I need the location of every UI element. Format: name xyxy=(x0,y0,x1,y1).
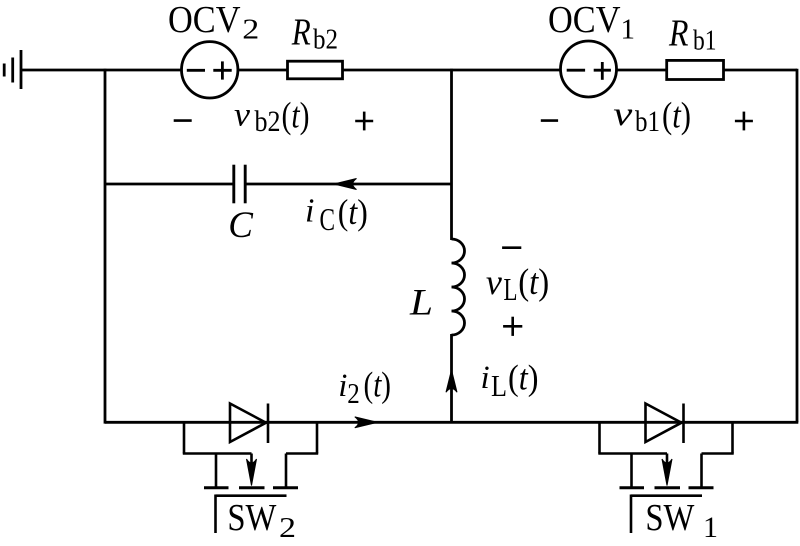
wire Rb1 to right edge xyxy=(724,69,798,72)
arrow i2 (points right) xyxy=(355,417,378,428)
svg-text:(t): (t) xyxy=(518,261,549,302)
svg-text:1: 1 xyxy=(621,14,636,46)
arrow SW2 gate (points down) xyxy=(247,459,257,486)
arrow iL (points up) xyxy=(446,370,457,392)
arrow SW1 gate (points down) xyxy=(662,459,672,486)
svg-text:2: 2 xyxy=(347,378,360,410)
svg-text:b2: b2 xyxy=(313,24,338,56)
diode D2 xyxy=(230,404,266,443)
svg-text:i: i xyxy=(481,360,490,396)
svg-text:(t): (t) xyxy=(364,365,392,405)
svg-text:R: R xyxy=(668,12,688,54)
svg-text:v: v xyxy=(613,96,633,133)
wire left vertical xyxy=(104,69,107,424)
resistor Rb1 xyxy=(667,60,724,79)
svg-text:b2: b2 xyxy=(255,105,281,138)
svg-text:v: v xyxy=(234,97,251,134)
wire top left from ground to OCV2 xyxy=(21,69,182,72)
label minus vL xyxy=(502,246,521,249)
svg-text:OCV: OCV xyxy=(548,0,621,41)
voltage source OCV1 xyxy=(561,41,617,97)
svg-text:L: L xyxy=(409,282,433,323)
svg-text:1: 1 xyxy=(703,511,718,544)
label minus vb2 xyxy=(174,119,192,122)
wire capacitor branch left xyxy=(105,183,234,186)
svg-text:C: C xyxy=(320,201,336,237)
ground xyxy=(4,50,21,89)
svg-text:R: R xyxy=(291,11,311,53)
wire capacitor branch right xyxy=(246,183,452,186)
mosfet SW1 body xyxy=(598,422,601,453)
wire bottom xyxy=(105,421,798,424)
label plus vb2 xyxy=(355,112,373,131)
wire middle vertical bottom xyxy=(450,334,453,422)
arrow iC (points left) xyxy=(334,179,357,190)
label minus vb1 xyxy=(541,119,558,122)
label plus vb1 xyxy=(735,112,753,131)
switch SW1 xyxy=(598,404,733,534)
resistor Rb2 xyxy=(288,61,343,79)
wire right vertical xyxy=(796,69,799,423)
voltage source OCV2 xyxy=(182,42,238,98)
inductor L xyxy=(452,239,465,335)
svg-text:(t): (t) xyxy=(282,96,310,137)
svg-text:OCV: OCV xyxy=(168,0,241,41)
svg-text:L: L xyxy=(504,272,518,307)
mosfet SW2 body xyxy=(183,422,186,453)
switch SW2 xyxy=(183,404,318,534)
svg-text:SW: SW xyxy=(645,497,694,539)
svg-text:L: L xyxy=(491,368,507,403)
svg-text:b1: b1 xyxy=(693,25,717,57)
wire middle vertical top xyxy=(450,69,453,240)
svg-text:2: 2 xyxy=(279,512,296,544)
svg-text:b1: b1 xyxy=(635,105,660,138)
svg-text:i: i xyxy=(305,193,314,230)
svg-text:(t): (t) xyxy=(338,192,368,232)
label plus vL xyxy=(503,317,522,336)
svg-text:SW: SW xyxy=(227,497,276,539)
svg-text:(t): (t) xyxy=(508,358,539,398)
wire OCV2 to Rb2 xyxy=(238,69,288,72)
diode D1 xyxy=(646,404,682,443)
svg-text:v: v xyxy=(486,262,502,302)
capacitor C xyxy=(234,165,245,204)
svg-text:C: C xyxy=(228,205,254,246)
svg-text:(t): (t) xyxy=(662,96,691,137)
wire OCV1 to Rb1 xyxy=(616,69,666,72)
svg-text:i: i xyxy=(338,368,347,404)
svg-text:2: 2 xyxy=(242,14,259,46)
wire Rb2 to OCV1 xyxy=(343,69,561,72)
